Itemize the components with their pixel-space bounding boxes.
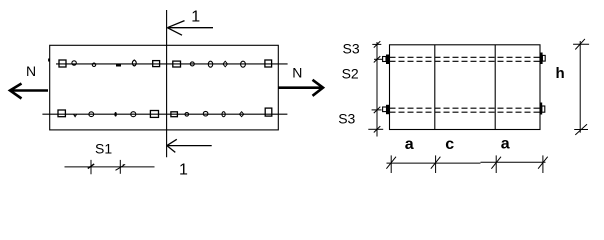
rivet T9 oval (208, 61, 212, 67)
svg-text:h: h (556, 65, 565, 82)
svg-text:N: N (26, 63, 36, 79)
rivet T6 square (153, 61, 160, 67)
plate outline (right side view) (390, 45, 541, 130)
rivet T4 dash (116, 65, 121, 67)
svg-text:a: a (501, 136, 510, 153)
rivet B1 square (58, 110, 65, 117)
rivet T12 square (265, 60, 272, 67)
rivet B4 filled dot (114, 112, 116, 117)
dimension h line (573, 39, 589, 135)
svg-text:N: N (292, 64, 302, 80)
hidden rivet line top B (390, 60, 541, 62)
hidden rivet line bottom A (390, 107, 541, 109)
svg-text:S1: S1 (95, 140, 112, 156)
rivet B9 circle (203, 111, 208, 116)
rivet B12 square (265, 108, 272, 116)
rivet T3 circle (92, 63, 95, 66)
bolt head left top (386, 55, 390, 65)
rivet T10 diamond (223, 61, 228, 67)
rivet T2 circle (72, 61, 76, 65)
svg-text:c: c (445, 136, 454, 153)
rivet B11 diamond (239, 112, 243, 117)
splice divider right (494, 45, 496, 130)
force arrow N right (279, 80, 324, 96)
svg-text:S3: S3 (338, 111, 355, 127)
rivet B6 square (150, 111, 158, 118)
plate outline (left elevation view) (50, 45, 279, 130)
dimension S1 line (65, 160, 155, 174)
bolt head left bottom (386, 105, 390, 114)
bottom gauge line (42, 113, 287, 115)
rivet T8 circle (190, 62, 194, 66)
dimension chain a c a (386, 155, 547, 173)
section line 1-1 (166, 10, 168, 157)
rivet B5 circle (131, 112, 136, 117)
svg-text:1: 1 (191, 9, 200, 26)
bolt head right bottom (540, 103, 542, 115)
rivet T1 square (59, 60, 66, 67)
svg-text:S3: S3 (343, 41, 360, 57)
rivet B2 vee (74, 114, 77, 116)
top gauge line (56, 63, 288, 65)
rivet T11 oval (241, 61, 246, 67)
svg-text:a: a (405, 136, 414, 153)
dimension chain S3 S2 S3 (368, 41, 383, 136)
svg-text:1: 1 (179, 162, 188, 179)
section arrow top (167, 21, 213, 36)
edge tick left (48, 59, 50, 62)
section arrow bottom (167, 139, 212, 152)
rivet B3 circle (89, 112, 94, 117)
rivet B7 square (171, 112, 178, 117)
rivet B10 oval (222, 112, 225, 117)
splice divider left (434, 45, 436, 130)
svg-text:S2: S2 (342, 66, 359, 82)
hidden rivet line top A (390, 56, 541, 58)
hidden rivet line bottom B (390, 111, 541, 113)
rivet B8 circle (185, 113, 189, 117)
rivet T5 oval (132, 60, 136, 66)
rivet T7 square (173, 61, 181, 67)
force arrow N left (10, 84, 48, 99)
bolt head right top (540, 53, 543, 65)
